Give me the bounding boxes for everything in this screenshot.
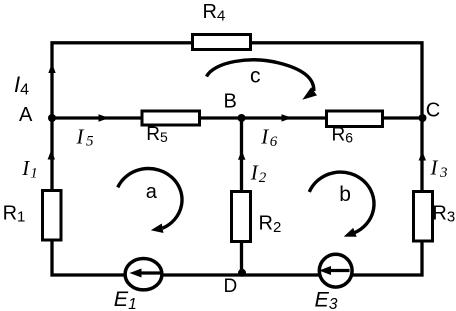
svg-text:R2: R2 — [259, 213, 282, 236]
svg-text:I3: I3 — [430, 156, 448, 181]
svg-text:I4: I4 — [14, 72, 29, 99]
loop a arrow — [118, 169, 182, 236]
resistor R3 — [414, 192, 433, 242]
svg-text:A: A — [19, 104, 33, 126]
svg-text:B: B — [224, 91, 237, 113]
svg-text:R3: R3 — [432, 202, 455, 225]
wire outer loop — [52, 43, 422, 275]
svg-text:D: D — [224, 276, 238, 297]
arrow I4 up on left wire — [48, 63, 55, 73]
source E3 arrow — [331, 269, 350, 272]
node B — [238, 114, 246, 122]
arrow I1 up on left wire — [48, 150, 55, 160]
svg-text:c: c — [250, 64, 261, 87]
node C — [419, 114, 427, 122]
svg-text:b: b — [339, 183, 351, 206]
node A — [48, 114, 56, 122]
svg-text:I2: I2 — [250, 161, 267, 186]
resistor R6 — [327, 111, 383, 127]
svg-text:I6: I6 — [260, 125, 278, 150]
source E1 arrow — [140, 271, 161, 274]
arrow I2 up on middle vertical wire — [238, 150, 245, 160]
resistor R1 — [43, 191, 62, 241]
loop c arrow — [207, 60, 317, 104]
wire middle vertical B-D — [240, 118, 243, 275]
svg-text:C: C — [426, 99, 440, 121]
svg-text:R4: R4 — [203, 1, 226, 25]
arrow I5 right on middle wire — [99, 114, 110, 121]
wire middle horizontal A-B-C — [52, 116, 422, 119]
source E3 — [319, 254, 352, 287]
resistor R5 — [142, 111, 200, 125]
svg-text:R1: R1 — [3, 203, 26, 226]
svg-text:E3: E3 — [315, 287, 338, 311]
node D — [238, 269, 246, 277]
svg-text:R5: R5 — [146, 124, 168, 145]
resistor R4 — [193, 35, 251, 50]
svg-text:I5: I5 — [76, 124, 95, 149]
loop b arrow — [309, 172, 374, 241]
arrow I3 up on right wire — [419, 151, 426, 161]
source E1 — [125, 259, 162, 290]
arrow I6 right on middle wire — [282, 114, 293, 121]
svg-text:a: a — [146, 181, 158, 203]
svg-text:E1: E1 — [114, 287, 137, 311]
resistor R2 — [232, 192, 251, 242]
svg-text:I1: I1 — [21, 156, 38, 181]
